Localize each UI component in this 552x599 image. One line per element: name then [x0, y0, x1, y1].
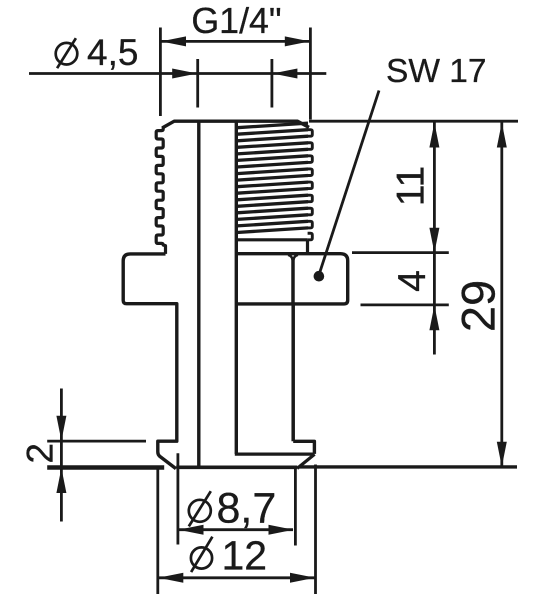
- arrow D12 left (points left): [158, 573, 183, 583]
- lip right chamfer: [297, 454, 314, 468]
- top right extension line: [309, 120, 518, 123]
- flange top extension line: [352, 251, 449, 254]
- lower body right edge: [291, 304, 295, 441]
- hex facet top shoulders: [288, 255, 298, 260]
- diameter symbol of D4.5: [56, 38, 78, 68]
- dim D12 line: [158, 576, 316, 579]
- hex flange right part: [236, 254, 347, 304]
- bottom lip right: [293, 441, 314, 454]
- leader line SW17: [319, 91, 379, 274]
- svg-text:8,7: 8,7: [217, 485, 277, 533]
- arrow G1/4 left: [161, 36, 186, 46]
- svg-text:12: 12: [222, 533, 268, 579]
- arrow 4 bottom (points up from below): [429, 305, 439, 330]
- arrow 11 top (points up): [429, 123, 439, 148]
- arrow G1/4 right: [285, 36, 310, 46]
- panel surface line right: [300, 465, 518, 468]
- dim 11 and 4 vertical line: [433, 123, 436, 355]
- spigot left edge / dim extension: [176, 453, 179, 544]
- arrow 29 top (points up): [497, 123, 507, 148]
- leader dot SW17: [314, 271, 325, 282]
- arrow D8.7 right (points right): [269, 525, 294, 535]
- thread right-edge hooks: [308, 130, 313, 240]
- hex facet line: [291, 259, 295, 304]
- thread lines: [237, 123, 308, 232]
- diameter symbol of D12: [191, 537, 213, 572]
- arrow D8.7 left (points left): [179, 525, 204, 535]
- panel surface line left: [47, 465, 164, 469]
- diameter symbol of D8.7: [189, 491, 211, 526]
- svg-text:SW 17: SW 17: [386, 53, 487, 90]
- arrow 29 bottom (points down): [497, 442, 507, 467]
- svg-text:29: 29: [452, 280, 505, 332]
- arrow D4.5 left (points right): [172, 69, 197, 79]
- dim D12 extension lines: [158, 465, 316, 595]
- svg-text:4,5: 4,5: [87, 32, 138, 73]
- arrow D12 right (points right): [290, 573, 315, 583]
- arrow 2 bottom (points up): [56, 468, 66, 493]
- arrow 11 bottom (points down): [429, 228, 439, 253]
- dim D4.5 ticks: [198, 59, 272, 108]
- flange left part: [123, 254, 177, 469]
- flange bottom extension line: [361, 303, 449, 306]
- knurled left edge of cap: [156, 126, 165, 254]
- lip bottom line: [235, 453, 315, 456]
- dim D4.5 line: [29, 72, 326, 75]
- dim 2 upper extension line: [47, 440, 146, 443]
- dim G1/4 extension lines: [160, 28, 310, 120]
- svg-text:11: 11: [389, 166, 432, 207]
- bore line right: [235, 121, 238, 454]
- thread right edge below runout: [306, 240, 309, 254]
- arrow D4.5 right (points left): [272, 69, 297, 79]
- arrow 2 top (points down): [56, 416, 66, 441]
- bottom face line: [176, 465, 297, 469]
- dim D8.7 line: [179, 528, 293, 531]
- spigot right edge / dim extension: [294, 466, 297, 546]
- dim 2 vertical line: [60, 389, 63, 522]
- bore line left: [197, 121, 200, 466]
- fitting top outline (cap top edge with chamfers): [163, 121, 309, 127]
- svg-text:4: 4: [391, 270, 434, 292]
- thread runout bottom line: [236, 238, 307, 241]
- svg-text:2: 2: [20, 443, 61, 464]
- dim G1/4 line: [160, 40, 310, 43]
- svg-text:G1/4": G1/4": [191, 1, 281, 41]
- dim 29 vertical line: [500, 123, 503, 467]
